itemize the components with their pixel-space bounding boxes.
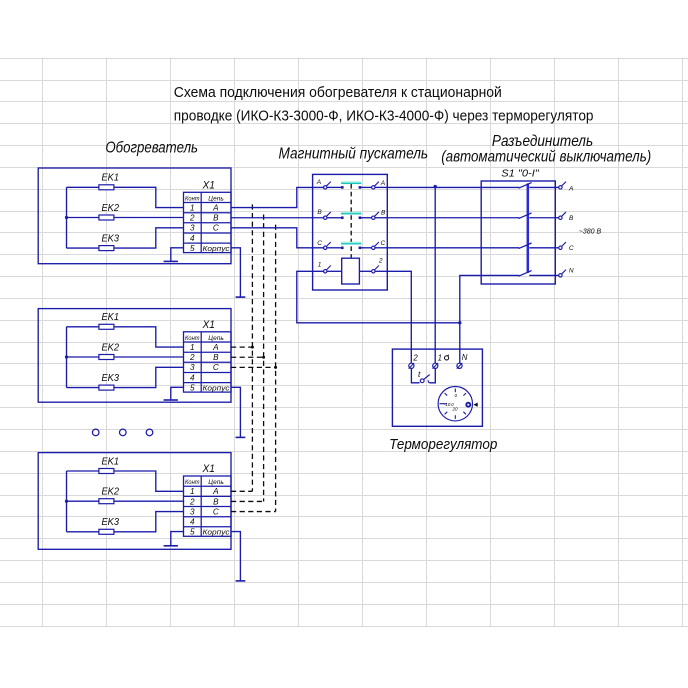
heater 2 wire to EK2 (67, 356, 99, 358)
coil KM rectangle (342, 258, 360, 284)
svg-text:A: A (212, 203, 219, 212)
heater 2 wire EK1 to X1 pin1 (114, 327, 184, 347)
heater 1 wire EK1 to X1 pin1 (114, 187, 184, 207)
svg-text:3: 3 (190, 507, 195, 516)
heater 2 wire EK3 to X1 pin3 (114, 367, 184, 387)
svg-text:4: 4 (190, 373, 195, 382)
heater 3 wire EK2 to X1 pin2 (114, 500, 184, 502)
heater 3 right ground bar (236, 580, 246, 582)
svg-text:EK1: EK1 (102, 312, 120, 323)
svg-text:EK3: EK3 (102, 373, 120, 384)
heater 3 enclosure (38, 453, 231, 550)
starter contact KM:C right bridge square (359, 247, 362, 250)
svg-text:Корпус: Корпус (203, 383, 230, 392)
heater 1 korpus wire to right ground (231, 248, 240, 297)
svg-text:1: 1 (438, 353, 442, 362)
starter contact KM:C left bridge square (341, 247, 344, 250)
starter contact KM:A left bridge square (341, 186, 344, 189)
heater 2 left ground bar (164, 399, 178, 401)
svg-text:C: C (213, 224, 219, 233)
starter contact KM:B teal bridge (341, 212, 361, 215)
svg-text:Терморегулятор: Терморегулятор (389, 436, 497, 453)
starter contact KM:C wire to box edge (375, 247, 387, 249)
svg-text:A: A (212, 487, 219, 496)
heater 3 wire EK3 to X1 pin3 (114, 512, 184, 532)
wire phase A: X1-1 to starter (jog up) (231, 187, 324, 207)
svg-text:2: 2 (189, 214, 195, 223)
dashed end net A to heater3 pin1 (231, 490, 252, 492)
heater 1 right ground bar (236, 296, 246, 298)
svg-text:3: 3 (190, 224, 195, 233)
disconnector pole N wire left (481, 274, 519, 276)
wire phase A starter to disconnector (387, 186, 481, 188)
heater 1 left ground bar (164, 260, 178, 262)
continuation circle 1 (92, 429, 99, 436)
disconnector pole A output terminal (559, 186, 562, 189)
svg-text:2: 2 (189, 497, 195, 506)
thermostat terminal 1 (433, 363, 438, 368)
svg-text:Цепь: Цепь (208, 335, 224, 342)
svg-text:4: 4 (190, 234, 195, 243)
heater 2 korpus wire to right ground (231, 387, 240, 437)
disconnector pole C output stub (555, 247, 558, 249)
thermostat switch wire from terminal 1 (429, 368, 435, 382)
heater 2 wire to EK3 (67, 387, 99, 389)
dashed wire net A (heater1 row1 down to heater3) (251, 204, 253, 491)
svg-text:5: 5 (190, 244, 195, 253)
svg-text:A: A (568, 185, 573, 192)
wire N from disconnector down to thermostat (460, 275, 481, 363)
resistor EK3 (heater 1) (99, 246, 114, 251)
thermostat terminal N (457, 363, 462, 368)
heater 2 right ground bar (236, 436, 246, 438)
heater 2 junction dot (65, 355, 68, 358)
svg-text:C: C (381, 240, 386, 247)
disconnector pole A blade (519, 183, 532, 189)
junction dot net C heater2 (274, 366, 277, 369)
coil pin2 wire to box edge (375, 270, 387, 272)
heater 2 korpus wire to left ground (171, 387, 184, 400)
heater 3 korpus wire to right ground (231, 532, 240, 581)
svg-text:X1: X1 (202, 319, 215, 331)
starter contact KM:B wire to bridge (327, 217, 343, 219)
disconnector pole B wire right (529, 217, 555, 219)
disconnector pole A wire left (481, 186, 519, 188)
heater 2 enclosure (38, 309, 231, 403)
resistor EK1 (heater 3) (99, 469, 114, 474)
heater 1 korpus wire to left ground (171, 248, 184, 262)
svg-text:Корпус: Корпус (203, 528, 230, 537)
heater 3 wire to EK3 (67, 531, 99, 533)
svg-text:1: 1 (190, 487, 195, 496)
svg-text:4: 4 (190, 518, 195, 527)
starter contact KM:C bridge to right contact (360, 247, 372, 249)
svg-text:0: 0 (455, 393, 458, 398)
starter contact KM:A teal bridge (341, 181, 361, 184)
junction dot phase A / thermostat tap (434, 185, 437, 188)
disconnector pole N output terminal (559, 274, 562, 277)
svg-text:Конт: Конт (185, 335, 200, 342)
svg-text:Конт: Конт (185, 479, 200, 486)
disconnector pole C output terminal (559, 246, 562, 249)
svg-text:~380 В: ~380 В (579, 228, 602, 235)
heater 2 wire EK2 to X1 pin2 (114, 356, 184, 358)
heater 1 enclosure (38, 168, 231, 264)
heater 1 junction dot (65, 216, 68, 219)
resistor EK2 (heater 2) (99, 355, 114, 360)
svg-text:B: B (213, 214, 219, 223)
disconnector pole A output stub (555, 186, 558, 188)
svg-text:Разъединитель: Разъединитель (492, 133, 593, 150)
svg-text:EK1: EK1 (102, 456, 120, 467)
starter contact KM:A wire to box edge (375, 186, 387, 188)
junction dot N / coil return (458, 321, 461, 324)
thermostat box (392, 349, 482, 426)
heater 1 wire to EK1 (67, 186, 99, 188)
dashed coil linkage bar (350, 184, 352, 258)
disconnector box (481, 181, 555, 284)
disconnector pole A wire right (529, 186, 555, 188)
svg-text:B: B (213, 353, 219, 362)
starter contact KM:A wire to bridge (327, 186, 343, 188)
thermostat switch wire from terminal 2 (411, 368, 419, 382)
svg-text:B: B (569, 215, 574, 222)
svg-text:t: t (418, 369, 421, 379)
heater 3 left ground bar (164, 545, 178, 547)
svg-text:EK2: EK2 (102, 487, 120, 498)
heater 2 left branch wire (66, 327, 68, 388)
svg-text:N: N (569, 268, 574, 275)
junction dot net B heater2 (262, 356, 265, 359)
svg-text:EK1: EK1 (102, 173, 120, 184)
svg-text:(автоматический выключатель): (автоматический выключатель) (441, 149, 651, 166)
resistor EK2 (heater 3) (99, 499, 114, 504)
starter contact KM:A right terminal (372, 186, 375, 189)
svg-text:2: 2 (189, 353, 195, 362)
heater 3 wire EK1 to X1 pin1 (114, 471, 184, 491)
dashed end net C to heater3 pin3 (231, 511, 276, 513)
dashed tap net C to heater2 pin3 (231, 366, 276, 368)
svg-text:B: B (213, 497, 219, 506)
heater 3 wire to EK2 (67, 500, 99, 502)
heater 3 korpus wire to left ground (171, 532, 184, 546)
svg-text:Цепь: Цепь (208, 479, 224, 486)
magnetic starter box (313, 174, 388, 290)
svg-text:EK2: EK2 (102, 203, 120, 214)
heater 1 wire EK2 to X1 pin2 (114, 217, 184, 219)
coil pin2 contact (372, 270, 375, 273)
svg-text:Конт: Конт (185, 195, 200, 202)
heater 2 wire to EK1 (67, 326, 99, 328)
starter contact KM:B right terminal (372, 216, 375, 219)
thermostat knob marker (466, 403, 470, 407)
dashed wire net C (heater1 row3 down to heater3) (275, 225, 277, 512)
coil pin1 wire to coil (327, 270, 342, 272)
wire phase B starter to disconnector (387, 217, 481, 219)
starter contact KM:C right terminal (372, 246, 375, 249)
starter contact KM:A right bridge square (359, 186, 362, 189)
connector X1 table (heater 1) (184, 192, 232, 253)
wire phase A tap down to thermostat terminal 1 (434, 187, 436, 363)
svg-text:Магнитный пускатель: Магнитный пускатель (279, 145, 429, 162)
starter contact KM:B bridge to right contact (360, 217, 372, 219)
svg-text:A: A (212, 343, 219, 352)
disconnector pole C wire right (529, 247, 555, 249)
resistor EK3 (heater 3) (99, 529, 114, 534)
starter contact KM:B right bridge square (359, 216, 362, 219)
starter contact KM:A bridge to right contact (360, 186, 372, 188)
label sensor symbol (445, 356, 449, 360)
connector X1 table (heater 3) (184, 476, 232, 537)
thermostat dial ticks (440, 389, 467, 419)
starter contact KM:B left bridge square (341, 216, 344, 219)
svg-text:A: A (380, 180, 385, 187)
svg-text:N: N (462, 353, 468, 362)
resistor EK1 (heater 2) (99, 324, 114, 329)
svg-text:EK2: EK2 (102, 342, 120, 353)
thermostat switch moving contact (420, 379, 424, 383)
svg-text:C: C (213, 363, 219, 372)
wire phase C: X1-3 to starter (jog down) (231, 228, 324, 248)
resistor EK2 (heater 1) (99, 215, 114, 220)
svg-text:Обогреватель: Обогреватель (105, 139, 198, 156)
thermostat dial circle (438, 387, 472, 421)
starter contact KM:B left terminal (324, 216, 327, 219)
coil pin1 contact (324, 270, 327, 273)
svg-text:X1: X1 (202, 463, 215, 475)
svg-text:Схема подключения обогревателя: Схема подключения обогревателя к стацион… (174, 85, 502, 101)
disconnector pole B output terminal (559, 216, 562, 219)
disconnector pole B output stub (555, 217, 558, 219)
wire phase B: X1-2 to starter (231, 217, 324, 219)
connector X1 table (heater 2) (184, 332, 232, 393)
svg-text:Цепь: Цепь (208, 195, 224, 202)
wire phase C starter to disconnector (387, 247, 481, 249)
svg-text:S1 "0-I": S1 "0-I" (501, 168, 539, 179)
starter contact KM:B wire to box edge (375, 217, 387, 219)
svg-text:B: B (317, 209, 322, 216)
svg-text:5: 5 (190, 528, 195, 537)
heater 3 junction dot (65, 500, 68, 503)
starter contact KM:C left terminal (324, 246, 327, 249)
svg-text:2: 2 (412, 353, 418, 362)
disconnector pole B blade (519, 213, 532, 219)
svg-text:C: C (569, 245, 574, 252)
switch S1 common bar (527, 183, 530, 273)
dashed wire net B (heater1 row2 down to heater3) (263, 215, 265, 502)
continuation circle 3 (146, 429, 153, 436)
starter contact KM:A left terminal (324, 186, 327, 189)
svg-text:3: 3 (190, 363, 195, 372)
svg-text:EK3: EK3 (102, 234, 120, 245)
svg-text:-10: -10 (444, 402, 451, 407)
coil to pin2 contact wire (359, 270, 371, 272)
continuation circle 2 (120, 429, 127, 436)
svg-text:1: 1 (190, 343, 195, 352)
disconnector pole N wire right (529, 274, 555, 276)
svg-text:проводке (ИКО-К3-3000-Ф, ИКО-К: проводке (ИКО-К3-3000-Ф, ИКО-К3-4000-Ф) … (174, 109, 594, 125)
disconnector pole B wire left (481, 217, 519, 219)
svg-text:B: B (381, 209, 386, 216)
wire coil pin1 out left and down (297, 271, 460, 323)
svg-text:Корпус: Корпус (203, 244, 230, 253)
heater 1 wire to EK3 (67, 247, 99, 249)
disconnector pole C wire left (481, 247, 519, 249)
starter contact KM:C wire to bridge (327, 247, 343, 249)
heater 1 left branch wire (66, 187, 68, 248)
dashed end net B to heater3 pin2 (231, 500, 264, 502)
resistor EK1 (heater 1) (99, 185, 114, 190)
starter contact KM:C teal bridge (341, 242, 361, 245)
wire coil pin2 to thermostat terminal 2 (387, 271, 411, 363)
heater 3 left branch wire (66, 471, 68, 532)
heater 3 wire to EK1 (67, 470, 99, 472)
resistor EK3 (heater 2) (99, 385, 114, 390)
thermostat terminal 2 (409, 363, 414, 368)
svg-text:20: 20 (451, 407, 458, 412)
dashed tap net B to heater2 pin2 (231, 356, 264, 358)
disconnector pole C blade (519, 243, 532, 249)
svg-text:5: 5 (190, 384, 195, 393)
heater 1 wire EK3 to X1 pin3 (114, 228, 184, 248)
svg-text:C: C (317, 240, 322, 247)
svg-text:1: 1 (318, 261, 322, 268)
disconnector pole N blade (519, 271, 532, 277)
junction dot net A heater2 (251, 346, 254, 349)
svg-text:1: 1 (190, 203, 195, 212)
svg-text:C: C (213, 507, 219, 516)
svg-text:2: 2 (378, 257, 383, 264)
disconnector pole N output stub (555, 274, 558, 276)
dashed tap net A to heater2 pin1 (231, 346, 252, 348)
svg-text:X1: X1 (202, 179, 215, 191)
thermostat knob pointer (473, 403, 477, 407)
svg-text:EK3: EK3 (102, 517, 120, 528)
heater 1 wire to EK2 (67, 217, 99, 219)
svg-text:A: A (316, 179, 321, 186)
